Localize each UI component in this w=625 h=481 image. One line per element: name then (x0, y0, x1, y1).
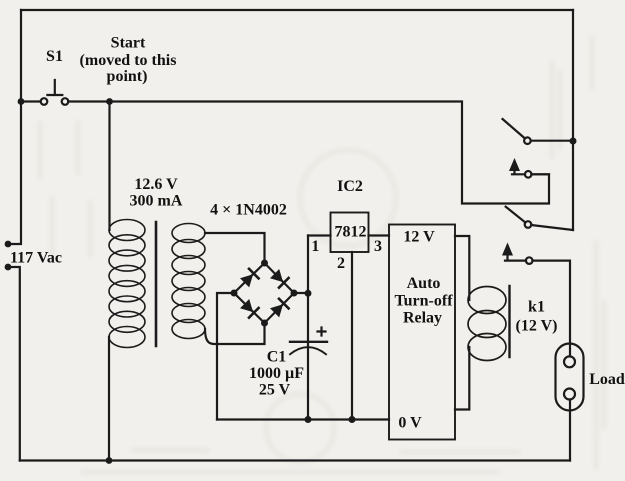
transformer T1 primary winding (109, 220, 145, 348)
wire primary top lead (108, 102, 110, 231)
svg-text:(moved to this: (moved to this (80, 52, 177, 69)
load pin top (564, 356, 575, 367)
diode D4 bottom-right (270, 299, 289, 318)
svg-text:Relay: Relay (403, 310, 442, 327)
load pin bottom (564, 389, 575, 400)
node junction left (18, 98, 25, 105)
load connector outline (556, 344, 584, 411)
svg-text:Auto: Auto (407, 275, 441, 292)
svg-text:S1: S1 (46, 48, 63, 65)
wire pin 2 (351, 252, 353, 420)
svg-text:Load: Load (589, 371, 625, 388)
relay contact 1 arm (503, 119, 525, 138)
wire right vertical (572, 10, 574, 230)
relay actuation arrow 2 (502, 243, 526, 261)
svg-text:1000 µF: 1000 µF (249, 365, 304, 382)
wire pin 3 (369, 234, 390, 236)
svg-text:12.6 V: 12.6 V (134, 176, 178, 193)
relay coil k1 winding (468, 287, 506, 361)
svg-text:C1: C1 (267, 349, 287, 366)
wire left vertical upper (9, 10, 21, 244)
svg-text:IC2: IC2 (337, 178, 363, 195)
node junction right rail (570, 138, 577, 145)
wire secondary top to bridge (205, 233, 265, 263)
svg-text:300 mA: 300 mA (130, 193, 183, 210)
node 117Vac terminal upper (5, 241, 12, 248)
wire relay 12V to coil top (455, 236, 469, 300)
wire primary bottom lead (108, 337, 110, 461)
node bridge right (291, 290, 298, 297)
wire bottom rail (20, 459, 570, 461)
svg-text:Start: Start (111, 35, 146, 52)
svg-text:k1: k1 (528, 299, 545, 316)
node junction C1 ground (305, 416, 312, 423)
diode D2 top-right (270, 269, 289, 288)
relay contact 2 fixed terminal (526, 257, 533, 264)
wire coil bottom to relay box (455, 347, 469, 410)
wire S1 feed (21, 100, 41, 102)
svg-text:25 V: 25 V (259, 382, 291, 399)
wire left vertical lower (8, 267, 20, 461)
relay contact 2 arm (506, 207, 526, 223)
transformer T1 core (155, 222, 158, 346)
node bridge bottom (261, 320, 268, 327)
svg-text:0 V: 0 V (398, 415, 422, 432)
wire 0V ground rail (217, 418, 389, 420)
node bridge top (261, 260, 268, 267)
wire contact 1 to right rail (531, 140, 573, 142)
wire secondary bottom to bridge (205, 323, 265, 344)
svg-text:point): point) (107, 68, 148, 85)
transformer T1 secondary winding (172, 224, 205, 339)
node 117Vac terminal lower (5, 264, 12, 271)
svg-text:117 Vac: 117 Vac (10, 250, 62, 267)
wire pin 1 (308, 234, 331, 236)
node junction pin2 ground (349, 416, 356, 423)
svg-text:1: 1 (311, 238, 319, 255)
diode bridge diamond (234, 263, 294, 323)
relay module box (389, 225, 455, 440)
svg-text:3: 3 (374, 238, 382, 255)
wire bridge plus output (294, 292, 308, 294)
svg-text:4 × 1N4002: 4 × 1N4002 (210, 202, 287, 219)
svg-text:(12 V): (12 V) (516, 318, 558, 335)
relay contact 1 fixed terminal (525, 171, 532, 178)
svg-text:2: 2 (337, 255, 345, 272)
svg-text:7812: 7812 (335, 224, 367, 241)
wire load bottom (569, 400, 571, 461)
relay actuation arrow 1 (509, 158, 525, 174)
svg-text:Turn-off: Turn-off (394, 293, 453, 310)
node junction transformer primary top (106, 98, 113, 105)
relay coil k1 core (508, 286, 510, 357)
diode D1 top-left (240, 269, 259, 288)
wire bridge minus to ground rail (217, 293, 234, 420)
node junction plus line (305, 290, 312, 297)
node bridge left (231, 290, 238, 297)
node junction primary bottom (106, 457, 113, 464)
wire plus vertical line (307, 236, 309, 420)
wire top rail (21, 9, 573, 11)
capacitor C1 plates (290, 328, 327, 355)
svg-text:12 V: 12 V (403, 229, 435, 246)
op-amp IC2 7812 box (331, 213, 369, 253)
wire fixed 1 to S1 net (532, 173, 550, 175)
wire S1 output to right (68, 102, 549, 204)
diode D3 bottom-left (240, 299, 259, 318)
wire fixed 2 to load (533, 261, 571, 357)
switch S1 (41, 80, 69, 105)
wire contact 2 to right rail (531, 225, 573, 230)
